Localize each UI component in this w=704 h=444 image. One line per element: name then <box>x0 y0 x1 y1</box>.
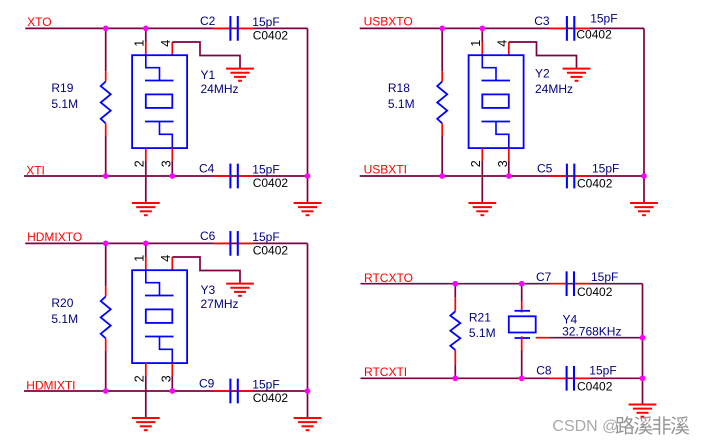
capacitor C5 right pin <box>574 175 590 177</box>
resistor R19 top pin <box>105 71 107 81</box>
capacitor C2 right pin <box>238 27 254 29</box>
wire Y3 pin 4 to ground <box>172 257 240 284</box>
wire HDMIXTI horizontal <box>24 390 308 392</box>
crystal Y1 pin 4 <box>171 42 173 55</box>
svg-text:4: 4 <box>159 40 173 47</box>
ground at Y1 pin 2 <box>132 203 160 215</box>
wire Y3 pin 2 to ground <box>145 376 147 418</box>
junction XTI/right rail <box>305 173 311 179</box>
svg-text:15pF: 15pF <box>252 230 279 244</box>
wire HDMIXTO to R20 <box>105 243 107 286</box>
wire Y3 pin 3 to HDMIXTI <box>171 376 173 391</box>
svg-text:15pF: 15pF <box>252 15 279 29</box>
capacitor C7 right pin <box>574 283 590 285</box>
svg-text:2: 2 <box>132 160 146 167</box>
capacitor C6 right pin <box>238 242 254 244</box>
junction USBXTI/R18 <box>439 173 445 179</box>
wire Y1 pin 3 to XTI <box>171 161 173 176</box>
capacitor C4 left pin <box>213 175 230 177</box>
resistor R19 <box>101 82 111 124</box>
junction USBXTO/R18 <box>439 26 445 32</box>
crystal Y3 body <box>132 270 187 363</box>
wire USBXTO to R18 <box>441 28 443 71</box>
svg-text:XTO: XTO <box>27 15 51 29</box>
wire USBXTO horizontal <box>360 27 644 29</box>
wire Y2 pin 2 to ground <box>481 161 483 203</box>
wire Y2 pin 4 to ground <box>509 42 577 69</box>
crystal Y1 pin 2 <box>145 148 147 161</box>
crystal Y1 plate <box>146 94 173 108</box>
capacitor C5 <box>567 164 574 189</box>
resistor R20 top pin <box>105 286 107 296</box>
crystal Y3 pin 3 <box>171 363 173 376</box>
svg-text:2: 2 <box>132 375 146 382</box>
ground at Y3 pin 4 <box>226 284 254 296</box>
svg-text:C5: C5 <box>537 162 553 176</box>
svg-text:C7: C7 <box>536 270 552 284</box>
wire XTO to R19 <box>105 28 107 71</box>
capacitor C8 right pin <box>574 377 590 379</box>
junction HDMIXTO/Y3 pin 1 <box>143 241 149 247</box>
svg-text:Y1: Y1 <box>201 68 216 82</box>
resistor R18 top pin <box>441 71 443 81</box>
svg-text:CSDN @: CSDN @ <box>552 418 618 435</box>
crystal Y4 pin 1 <box>521 301 523 312</box>
crystal Y2 body <box>469 55 524 148</box>
svg-text:C0402: C0402 <box>577 285 613 299</box>
wire USBXTI horizontal <box>360 175 644 177</box>
wire Y4 pin 2 to RTCXTI <box>521 350 523 378</box>
svg-text:3: 3 <box>496 160 510 167</box>
wire right rail <box>307 243 309 418</box>
capacitor C2 left pin <box>213 27 230 29</box>
svg-text:C0402: C0402 <box>253 28 289 42</box>
resistor R18 <box>437 82 447 124</box>
crystal Y2 pin 1 <box>481 42 483 55</box>
wire right rail <box>307 28 309 203</box>
wire right rail RTC <box>642 284 644 405</box>
crystal Y3 bottom electrode <box>145 336 174 338</box>
ground at Y2 pin 2 <box>468 203 496 215</box>
capacitor C7 left pin <box>550 283 567 285</box>
svg-text:27MHz: 27MHz <box>201 297 239 311</box>
capacitor C8 left pin <box>550 377 567 379</box>
svg-text:XTI: XTI <box>26 163 45 177</box>
svg-text:C3: C3 <box>534 14 550 28</box>
junction RTCXTO/R21 <box>452 281 458 287</box>
wire RTCXTO to R21 <box>454 284 456 297</box>
wire RTCXTO horizontal <box>361 283 643 285</box>
svg-text:4: 4 <box>496 40 510 47</box>
wire right rail <box>643 28 645 203</box>
capacitor C4 right pin <box>238 175 254 177</box>
junction RTCXTO/Y4 <box>519 281 525 287</box>
ground at right rail <box>630 203 658 215</box>
wire R20 to HDMIXTI <box>105 351 107 391</box>
crystal Y3 internal lead 3 <box>160 337 173 364</box>
capacitor C7 <box>567 271 574 296</box>
svg-text:2: 2 <box>469 160 483 167</box>
junction HDMIXTI/R20 <box>103 388 109 394</box>
wire HDMIXTO horizontal <box>25 242 307 244</box>
svg-text:5.1M: 5.1M <box>51 97 78 111</box>
crystal Y2 bottom electrode <box>482 121 511 123</box>
wire XTO to Y1 pin 1 <box>145 28 147 42</box>
crystal Y1 top electrode <box>145 80 174 82</box>
crystal Y2 pin 4 <box>508 42 510 55</box>
svg-text:USBXTO: USBXTO <box>364 15 413 29</box>
crystal Y2 pin 2 <box>481 148 483 161</box>
crystal Y3 plate <box>146 309 173 323</box>
crystal Y4 bottom electrode <box>515 337 531 339</box>
svg-text:C8: C8 <box>536 363 552 377</box>
svg-text:15pF: 15pF <box>592 162 619 176</box>
crystal Y3 pin 1 <box>145 257 147 270</box>
crystal Y1 internal lead 1 <box>146 55 160 80</box>
wire RTCXTI horizontal <box>361 377 643 379</box>
junction HDMIXTO/R20 <box>103 241 109 247</box>
watermark username <box>616 416 690 434</box>
ground at right rail <box>294 418 322 430</box>
wire Y1 pin 2 to ground <box>145 161 147 203</box>
svg-text:C0402: C0402 <box>577 177 613 191</box>
junction RTCXTI/Y4 <box>519 375 525 381</box>
crystal Y4 case pin <box>536 337 549 339</box>
svg-text:C0402: C0402 <box>577 379 613 393</box>
svg-text:32.768KHz: 32.768KHz <box>562 325 621 339</box>
junction USBXTI/right rail <box>641 173 647 179</box>
crystal Y3 top electrode <box>145 295 174 297</box>
crystal Y2 internal lead 1 <box>482 55 496 80</box>
wire R21 to RTCXTI <box>454 364 456 378</box>
crystal Y1 pin 1 <box>145 42 147 55</box>
wire Y2 pin 3 to USBXTI <box>508 161 510 176</box>
crystal Y3 pin 2 <box>145 363 147 376</box>
capacitor C6 left pin <box>213 242 230 244</box>
crystal Y4 pin 2 <box>521 336 523 350</box>
crystal Y1 body <box>132 55 187 148</box>
crystal Y2 internal lead 3 <box>496 122 509 149</box>
svg-text:3: 3 <box>159 160 173 167</box>
svg-text:C6: C6 <box>200 229 216 243</box>
junction Y4 case/right rail <box>640 335 646 341</box>
svg-text:15pF: 15pF <box>591 270 618 284</box>
capacitor C3 right pin <box>574 27 590 29</box>
svg-text:R20: R20 <box>51 296 73 310</box>
capacitor C2 <box>230 16 237 41</box>
resistor R18 bottom pin <box>441 123 443 136</box>
resistor R20 bottom pin <box>105 338 107 351</box>
resistor R21 bottom pin <box>454 350 456 364</box>
svg-text:5.1M: 5.1M <box>388 97 415 111</box>
capacitor C4 <box>230 164 237 189</box>
svg-text:15pF: 15pF <box>252 163 279 177</box>
svg-text:RTCXTO: RTCXTO <box>364 271 413 285</box>
capacitor C5 left pin <box>550 175 567 177</box>
junction XTO/Y1 pin 1 <box>143 26 149 32</box>
junction XTO/R19 <box>103 26 109 32</box>
junction RTCXTI/right rail <box>640 375 646 381</box>
wire Y1 pin 4 to ground <box>172 42 240 69</box>
svg-text:15pF: 15pF <box>589 363 616 377</box>
wire HDMIXTO to Y3 pin 1 <box>145 243 147 257</box>
resistor R19 bottom pin <box>105 123 107 136</box>
svg-text:15pF: 15pF <box>252 378 279 392</box>
svg-text:C0402: C0402 <box>253 391 289 405</box>
junction HDMIXTI/right rail <box>305 388 311 394</box>
svg-text:24MHz: 24MHz <box>201 82 239 96</box>
junction XTI/R19 <box>103 173 109 179</box>
svg-text:Y3: Y3 <box>201 283 216 297</box>
svg-text:C4: C4 <box>199 162 215 176</box>
capacitor C8 <box>567 366 574 391</box>
svg-text:C2: C2 <box>200 14 216 28</box>
svg-text:USBXTI: USBXTI <box>364 163 407 177</box>
crystal Y3 internal lead 1 <box>146 270 160 295</box>
junction USBXTO/Y2 pin 1 <box>479 26 485 32</box>
crystal Y1 bottom electrode <box>145 121 174 123</box>
junction RTCXTI/R21 <box>452 375 458 381</box>
resistor R21 top pin <box>454 297 456 311</box>
svg-text:24MHz: 24MHz <box>535 82 573 96</box>
capacitor C9 <box>230 379 237 404</box>
svg-text:1: 1 <box>132 255 146 262</box>
svg-text:5.1M: 5.1M <box>51 312 78 326</box>
svg-text:HDMIXTO: HDMIXTO <box>27 230 82 244</box>
crystal Y2 plate <box>482 94 509 108</box>
junction USBXTI/Y2 pin 3 <box>506 173 512 179</box>
crystal Y3 pin 4 <box>171 257 173 270</box>
svg-text:1: 1 <box>469 40 483 47</box>
wire R19 to XTI <box>105 136 107 176</box>
junction HDMIXTI/Y3 pin 3 <box>169 388 175 394</box>
capacitor C9 left pin <box>213 390 230 392</box>
svg-text:HDMIXTI: HDMIXTI <box>26 378 75 392</box>
svg-text:RTCXTI: RTCXTI <box>364 365 407 379</box>
capacitor C9 right pin <box>238 390 254 392</box>
svg-text:4: 4 <box>159 255 173 262</box>
wire XTO horizontal <box>25 27 307 29</box>
crystal Y4 body <box>509 316 536 332</box>
crystal Y1 internal lead 3 <box>160 122 173 149</box>
wire XTI horizontal <box>24 175 308 177</box>
wire USBXTO to Y2 pin 1 <box>481 28 483 42</box>
svg-text:C0402: C0402 <box>253 243 289 257</box>
wire RTCXTO to Y4 pin 1 <box>521 284 523 301</box>
svg-text:1: 1 <box>132 40 146 47</box>
svg-text:R18: R18 <box>388 81 410 95</box>
crystal Y2 pin 3 <box>508 148 510 161</box>
svg-text:Y2: Y2 <box>535 67 550 81</box>
ground at Y1 pin 4 <box>226 69 254 81</box>
crystal Y4 top electrode <box>515 310 531 312</box>
wire Y4 case pin to right rail <box>549 337 642 339</box>
svg-text:R19: R19 <box>51 81 73 95</box>
crystal Y1 pin 3 <box>171 148 173 161</box>
ground at Y2 pin 4 <box>563 69 591 81</box>
svg-text:15pF: 15pF <box>590 11 617 25</box>
resistor R21 <box>450 311 460 350</box>
ground at RTC right rail <box>629 405 657 417</box>
resistor R20 <box>101 297 111 339</box>
junction XTI/Y1 pin 3 <box>169 173 175 179</box>
svg-text:C9: C9 <box>199 377 215 391</box>
capacitor C3 left pin <box>550 27 567 29</box>
ground at Y3 pin 2 <box>132 418 160 430</box>
svg-text:C0402: C0402 <box>576 28 612 42</box>
wire R18 to USBXTI <box>441 136 443 176</box>
svg-text:C0402: C0402 <box>253 176 289 190</box>
capacitor C6 <box>230 231 237 256</box>
crystal Y2 top electrode <box>482 80 511 82</box>
svg-text:5.1M: 5.1M <box>469 326 496 340</box>
svg-text:3: 3 <box>159 375 173 382</box>
capacitor C3 <box>567 16 574 41</box>
svg-text:R21: R21 <box>469 311 491 325</box>
ground at right rail <box>294 203 322 215</box>
